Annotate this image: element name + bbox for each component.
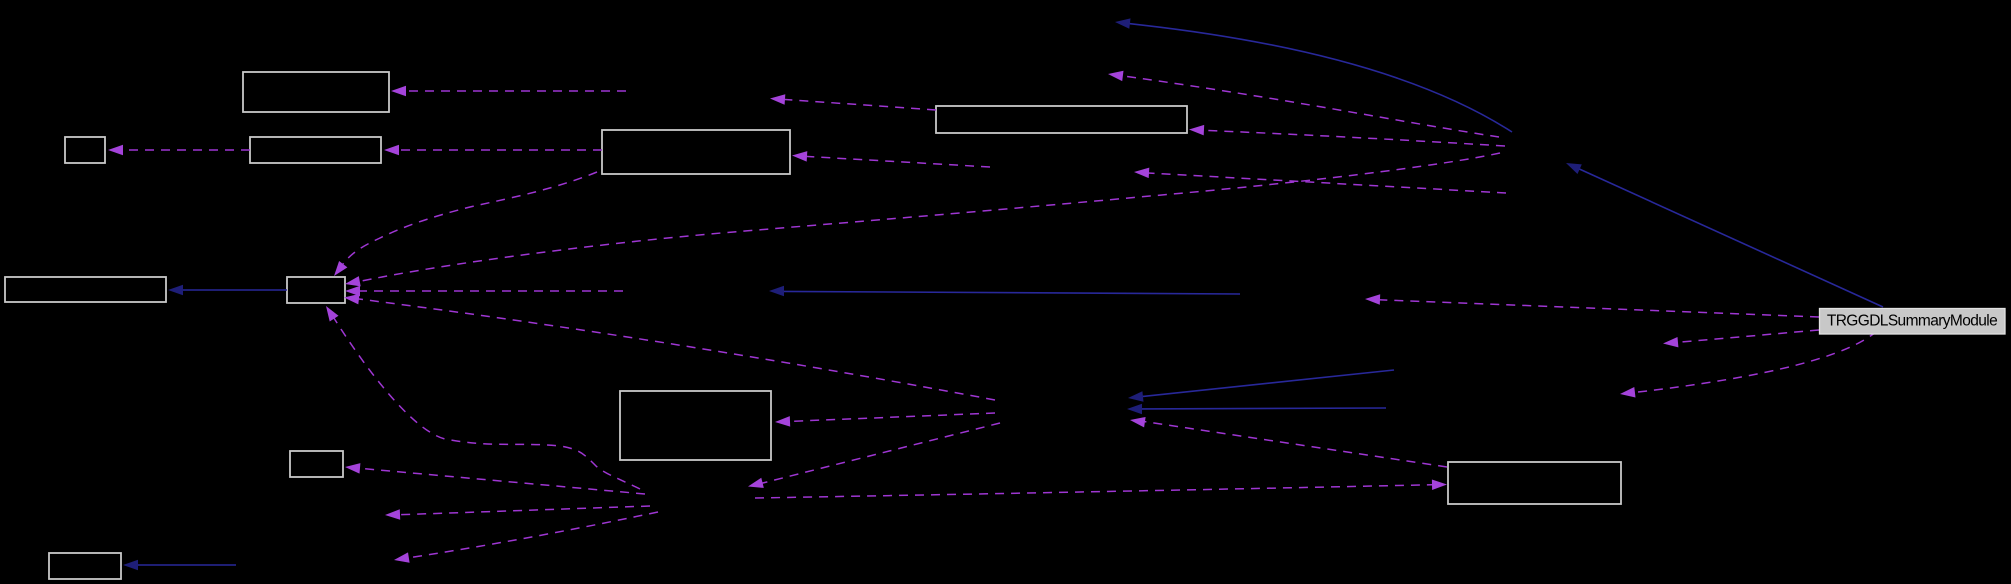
node TRGGDLSummaryModule (highlighted) (1820, 309, 2006, 335)
arrowhead at B7 bottom (326, 306, 339, 322)
arrowhead at B2 (108, 145, 123, 155)
node B1 (empty box) (243, 72, 389, 112)
arrowhead at D (748, 478, 764, 488)
blue arrowhead at K (lower) (1127, 404, 1142, 415)
arrowhead at B10 left (1432, 480, 1447, 491)
edge B4->B3 (dashed) (391, 149, 602, 151)
arrowhead at N3 (1108, 71, 1124, 81)
node B4 (empty box) (602, 130, 790, 174)
blue arrowhead at K (upper) (1128, 391, 1144, 402)
edge K->D (dashed) (760, 423, 1000, 484)
arrowhead at X4 (394, 552, 410, 562)
arrowhead at X3 (385, 509, 400, 520)
edge X2->B7 (dashed) (353, 290, 623, 292)
node B8 (empty box) (620, 391, 771, 460)
edge X5->B11 (solid inheritance) (131, 564, 236, 566)
arrowhead at X1 (770, 94, 785, 105)
node B11 (empty box) (49, 553, 121, 579)
node B10 (empty box) (1448, 462, 1621, 504)
edge D->X4 (dashed) (401, 512, 658, 559)
edge B5->X1 (dashed) (777, 99, 936, 110)
edge TRGG->F (solid inheritance) (1578, 168, 1883, 307)
blue arrowhead top (1115, 18, 1131, 28)
arrowhead at B8 (775, 416, 790, 427)
edge D->B9 (dashed) (352, 468, 645, 494)
node B3 (empty box) (250, 137, 381, 163)
edge B3->B2 (dashed) (115, 149, 250, 151)
edge F->B7 (dashed) (352, 153, 1500, 283)
edge B4->B7 (dashed) (343, 172, 597, 264)
edge blue->K upper (solid inheritance) (1141, 370, 1394, 397)
edge X1->B1 (dashed) (398, 90, 626, 92)
edge TRGG->E (dashed) (1378, 300, 1819, 317)
edge F->B5 (dashed) (1196, 130, 1505, 146)
arrowhead at B4 (792, 151, 807, 162)
edge blue->K lower (solid inheritance) (1142, 407, 1386, 410)
edge K->B8 (dashed) (782, 413, 995, 422)
edge TRGG->H (dashed) (1633, 331, 1877, 393)
edge D->B10 (dashed) (755, 485, 1439, 498)
arrowhead at B5 (1189, 125, 1204, 135)
edge K->B7 (dashed) (351, 298, 995, 400)
arrowhead at K right (1130, 417, 1146, 427)
node B7 (empty box) (287, 277, 345, 303)
edge D->B7 (dashed) (332, 315, 640, 489)
edge F->N4 (dashed) (1141, 173, 1506, 193)
svg-text:TRGGDLSummaryModule: TRGGDLSummaryModule (1827, 313, 1997, 330)
node B2 (empty box) (65, 137, 105, 163)
node B5 (empty box) (936, 106, 1187, 133)
arrowhead at B7 right (mid) (345, 286, 360, 296)
blue arrowhead at X2 (769, 286, 784, 297)
arrowhead at B7 right (lower) (344, 294, 360, 305)
node B6 (empty box) (5, 277, 166, 302)
edge B7->B6 (solid inheritance) (176, 289, 287, 291)
arrowhead at B3 (384, 145, 399, 155)
edge TRGG->G (dashed) (1676, 330, 1819, 343)
edge F->N3 (dashed) (1115, 75, 1499, 137)
edge D->X3 (dashed) (392, 506, 650, 515)
arrowhead at B7 right (upper) (345, 276, 361, 286)
blue arrowhead at F (1566, 163, 1582, 174)
blue arrowhead at B6 (168, 285, 183, 295)
arrowhead at N4 (1134, 168, 1149, 179)
arrowhead at B1 (391, 86, 406, 96)
arrowhead at G (1663, 337, 1678, 347)
blue arrowhead at B11 (123, 560, 138, 570)
arrowhead at E (1365, 294, 1380, 305)
arrowhead at B9 (345, 463, 360, 474)
edge E->X2 (solid inheritance) (784, 291, 1240, 294)
edge F->top (solid inheritance) (1129, 24, 1512, 132)
arrowhead at H (1620, 387, 1636, 398)
edge B10->K (dashed) (1142, 421, 1447, 467)
node B9 (empty box) (290, 451, 343, 477)
edge N4->B4 (dashed) (799, 156, 990, 167)
arrowhead at B7 top-right (334, 261, 347, 276)
